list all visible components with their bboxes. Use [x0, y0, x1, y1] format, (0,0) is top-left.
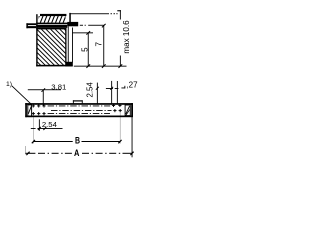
cap section hatch: [26, 5, 74, 30]
cap outline: [36, 13, 71, 24]
lead (inside package, dark band): [36, 25, 67, 28]
svg-text:1): 1): [6, 81, 12, 88]
extension line for dim 5: [73, 31, 93, 34]
svg-text:max 10.6: max 10.6: [122, 20, 131, 54]
inner wall rect right: [125, 105, 130, 116]
lead bent-down portion (right strip): [66, 26, 73, 66]
note 1) label and leader: [6, 81, 31, 104]
lead right end: [67, 22, 78, 26]
pins left group (cross marks): [32, 104, 46, 115]
svg-text:,27: ,27: [126, 80, 138, 89]
lead (left, outside): [26, 23, 36, 28]
body outline: [36, 14, 72, 66]
dimension .27 (top right): [117, 80, 138, 103]
bottom extension line (side view base): [74, 65, 127, 68]
top edge step/bump: [73, 100, 83, 103]
svg-text:5: 5: [81, 47, 90, 52]
dimension 3.81: [28, 83, 66, 106]
dimension 2.54 (top, rotated): [86, 81, 119, 105]
svg-text:3.81: 3.81: [51, 83, 66, 92]
dimension B: [32, 113, 122, 146]
pins right group (cross marks): [112, 104, 122, 112]
bottom view: package outline: [25, 103, 133, 117]
svg-text:2.54: 2.54: [86, 82, 95, 98]
dimension 2.54 (bottom): [31, 119, 63, 131]
dimension line 7: [95, 24, 106, 68]
dimension line max 10.6: [117, 10, 131, 68]
pin row dash-dot centerlines: [48, 106, 112, 114]
dimension A: [25, 117, 133, 158]
inner wall rect left (note 1): [28, 105, 32, 117]
dash-dot centerline of lead: [80, 24, 104, 27]
svg-text:2.54: 2.54: [42, 120, 58, 129]
extension line from cap top (for max 10.6): [70, 12, 117, 15]
svg-text:7: 7: [95, 41, 104, 46]
body section hatch: [0, 20, 124, 80]
svg-text:A: A: [74, 147, 80, 158]
dimension line 5: [81, 31, 91, 68]
svg-text:B: B: [75, 134, 80, 145]
